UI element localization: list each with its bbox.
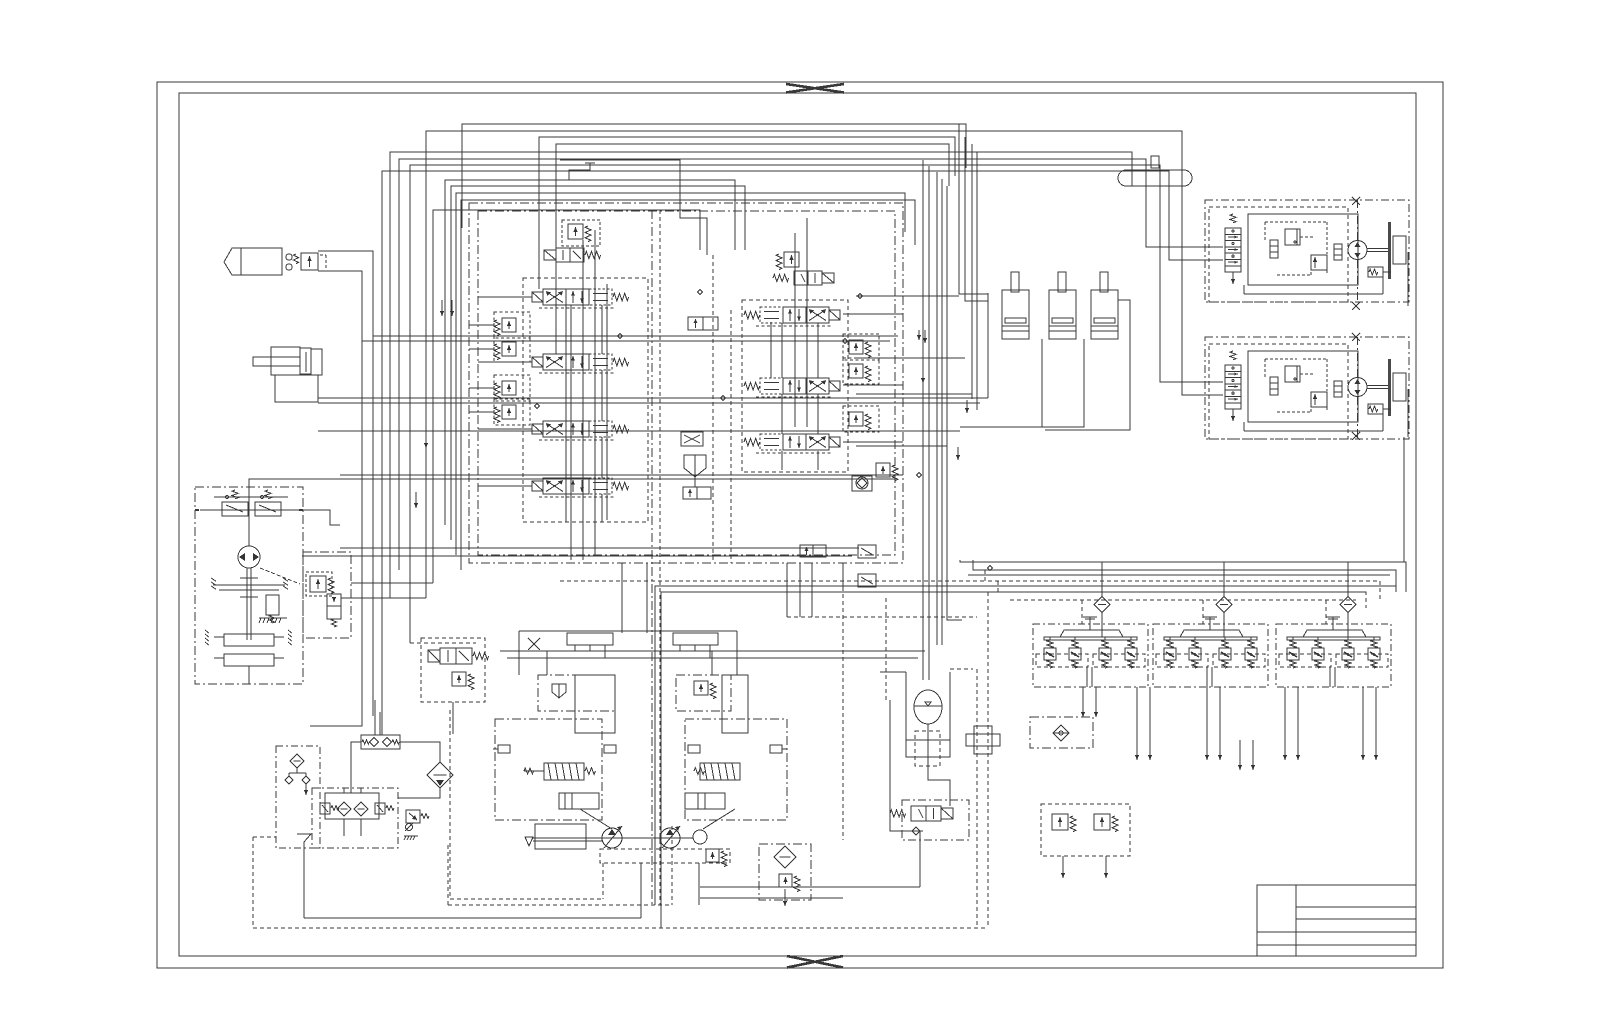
wire cluster feed 6 [1010, 599, 1356, 601]
wire bottom dashed enclosure [253, 927, 988, 929]
wire cross bus c [856, 393, 972, 395]
relief pilot boxes right [843, 334, 879, 360]
suspension cluster SC2 [1153, 624, 1268, 687]
X mark M1b [1352, 302, 1360, 310]
wire center drop H [971, 144, 973, 399]
acc dashed port box [915, 731, 940, 766]
pump P1 [602, 828, 622, 848]
pump pilot relief [694, 681, 708, 695]
gearbox gear top [213, 584, 285, 586]
relief valve RV8 [849, 412, 863, 426]
rotary joint pill [1118, 170, 1192, 186]
cross rect A [966, 734, 1000, 746]
wire top bus B [399, 159, 1146, 570]
relief valve RV7 [849, 364, 863, 378]
cooler relief A [320, 803, 330, 814]
travel motor unit M2 [1205, 337, 1409, 439]
wire mid dashed G [560, 580, 985, 582]
wire right edge M1 [1407, 252, 1409, 306]
pump side fittings [498, 745, 510, 753]
wire cross bus b [856, 357, 965, 359]
wire cluster feed 1 [960, 560, 1406, 592]
relief valve RV9 [784, 252, 799, 267]
wire center riser [433, 210, 700, 583]
valve at CYL1 [301, 253, 318, 270]
solenoid valve mid [428, 650, 440, 662]
pump relief [706, 849, 719, 862]
wire left drop A [310, 341, 362, 726]
valve stubs right col [781, 323, 783, 378]
breaker cylinder CYL1 [224, 248, 241, 275]
accumulator [914, 690, 942, 724]
wire left drop B [372, 336, 374, 716]
attach valve [327, 594, 341, 619]
gearbox output shaft [248, 666, 250, 684]
X mark M1 [1352, 197, 1360, 205]
aux valve box bottom [1041, 804, 1130, 856]
wire left col stubs [478, 296, 532, 298]
gearbox relief GR1 [222, 502, 248, 516]
cluster down arrows [1082, 687, 1084, 717]
relief valve RV2 [502, 342, 516, 356]
wire mid dashed H [787, 616, 977, 618]
travel motor unit M1 [1205, 200, 1409, 302]
wire cluster feed 3 [985, 570, 1380, 600]
suspension cluster SC3 [1276, 624, 1391, 687]
wire cyl bottom link [960, 426, 1042, 428]
wire gear link [341, 597, 426, 599]
cooler stems [343, 788, 345, 793]
wire center drop D [941, 179, 943, 645]
cooler filter B [354, 802, 368, 816]
relief valve RV4 [502, 405, 516, 419]
wire filter down [398, 788, 440, 798]
wire mid bus E [302, 555, 852, 557]
wire shuttle drop [694, 477, 696, 487]
wire right edge link [1403, 437, 1405, 562]
gearbox pilot line [200, 509, 300, 511]
relief valve RV6 [849, 340, 863, 354]
gearbox clutch upper [224, 634, 274, 646]
pilot box right column [742, 300, 848, 472]
wire top bus C [410, 165, 1160, 643]
pump enclosure right [685, 719, 787, 820]
return filter [774, 846, 796, 868]
directional valve V2 [532, 357, 543, 367]
title block [1257, 885, 1416, 956]
central valve block enclosure [469, 203, 903, 563]
wire sol drop [452, 702, 454, 734]
wire acc dashed encl [842, 587, 844, 840]
servo piston right [685, 793, 725, 809]
wire center drop E [947, 186, 962, 620]
servo valve left [544, 763, 584, 780]
wire cross bus d [856, 445, 947, 447]
directional valve V4 [532, 481, 543, 491]
return relief [779, 874, 792, 887]
gearbox clutch lower [224, 654, 274, 666]
wire cluster feed 4 [998, 581, 1366, 608]
wire bottom bus A [304, 917, 641, 919]
wire top bus E [426, 131, 1182, 598]
wire cluster feed 5 [968, 574, 1390, 576]
pump top wires [500, 650, 925, 652]
cluster filter F1 [1094, 597, 1110, 613]
shuttle block [681, 432, 703, 446]
wire dashed corner [253, 836, 276, 838]
wire check right [400, 742, 440, 762]
aux valve small C [800, 545, 813, 557]
wire cluster dashed drop A [1081, 600, 1083, 624]
relief valve RV5 [568, 224, 583, 239]
bottom centering mark [787, 956, 843, 968]
arrow marks mid [918, 330, 920, 340]
wire CYL1 bottom [318, 271, 362, 341]
cooler valve [406, 810, 420, 823]
right attach enclosure [303, 552, 351, 638]
central valve block enclosure inner [478, 211, 895, 555]
wire center drop C [936, 172, 938, 645]
pump bottom box [600, 849, 730, 863]
pump suction rect L [575, 675, 615, 733]
suspension cluster SC1 [1033, 624, 1148, 687]
pump link line [533, 837, 693, 839]
wire into M2 [1160, 202, 1223, 382]
wire accumulator drop [928, 724, 950, 806]
pump suction rect R [722, 675, 748, 733]
cylinder CYLB [1058, 272, 1066, 292]
valve stubs left col [565, 305, 567, 354]
wire cluster dashed drop C [1325, 600, 1327, 624]
aux arrows [1062, 856, 1064, 878]
wire gearbox top [249, 479, 385, 546]
gearbox pump motor [238, 546, 260, 568]
servo valve right [700, 763, 740, 780]
pilot valve PV3 [688, 317, 703, 330]
central dashed verticals [712, 255, 714, 563]
pump group top bar left [567, 633, 613, 645]
wire pump down B [698, 863, 700, 905]
wire into M1 [1146, 202, 1223, 247]
wire center bottom drops [786, 563, 788, 617]
fan symbol [525, 827, 533, 837]
wire center drop I [976, 152, 978, 410]
wire cluster feed solid A [655, 586, 1396, 905]
wire cluster riser C [1347, 562, 1349, 570]
accumulator enclosure [906, 672, 950, 757]
aux valve small B [858, 574, 876, 587]
relief pilot boxes [494, 312, 530, 338]
cross mark [528, 638, 540, 650]
return filter box [759, 844, 811, 900]
wire bottom dashed box 2 [448, 904, 672, 906]
X mark M2 [1352, 333, 1360, 341]
wire check top A [374, 700, 376, 735]
wire mid bus B [362, 340, 890, 342]
cooler filter A [337, 802, 351, 816]
cooler inner rect [325, 793, 379, 819]
wire cyl feed left [987, 293, 989, 398]
pilot valve PV4 [683, 487, 697, 499]
servo piston left [559, 793, 599, 809]
wire top loop 1 [462, 124, 966, 228]
pump enclosure left [495, 719, 602, 820]
wire filter stems [1101, 562, 1103, 596]
wire mid bus F [410, 642, 476, 644]
drawing frame outer border [157, 82, 1443, 968]
ground hatch [259, 617, 287, 619]
central enclosure inner right [651, 210, 653, 905]
mid relief [452, 672, 466, 686]
wire cross bus a [856, 295, 959, 297]
wire top bus D [382, 171, 1169, 735]
relief valve RV10 [876, 463, 890, 477]
directional valve V3 [532, 424, 543, 434]
wire top loop 3 [556, 144, 949, 240]
pump pilot box right [676, 675, 731, 711]
wire center drop B [928, 166, 930, 680]
valve gallery verticals left [570, 305, 572, 560]
cluster mid arrows [1239, 740, 1241, 770]
pilot valve PV1 [544, 250, 556, 260]
steering cylinder CYL2 [253, 357, 300, 366]
wire M2 return [1182, 202, 1223, 395]
wire cyl right [1045, 300, 1130, 430]
wire gear link2 [351, 582, 433, 584]
relief valve RV3 [502, 381, 516, 395]
wire check left [351, 742, 361, 793]
pump pilot box left [538, 675, 615, 711]
pilot valve PV2 [773, 274, 789, 281]
drawing frame inner border [179, 93, 1416, 956]
aux relief A [1052, 814, 1068, 830]
tank filter F1 [290, 754, 304, 768]
wire pump down A [640, 863, 642, 918]
wire CYL1 top [318, 251, 373, 336]
cooler relief B [375, 803, 385, 814]
wire top bus A [390, 152, 1132, 598]
wire center drop F [959, 124, 988, 294]
wire acc left [890, 700, 923, 831]
directional valve V7 [744, 438, 760, 446]
check pair box [361, 735, 400, 749]
wire right col stubs [843, 313, 903, 315]
wire cyl bottoms [1042, 339, 1084, 427]
wire mid bus A [373, 335, 898, 337]
wire bottom bus right [700, 886, 920, 888]
arrow tank B [305, 784, 307, 795]
gearbox enclosure [195, 487, 303, 684]
gearbox dashed link [260, 568, 300, 584]
directional valve V6 [744, 382, 760, 390]
tank filter small A [285, 776, 293, 784]
wire bottom dashed box 1 [450, 898, 603, 900]
wire M1 return [1169, 202, 1223, 260]
wire center drop A [922, 160, 924, 680]
solenoid box mid [421, 638, 485, 702]
cylinder CYLA [1011, 272, 1019, 292]
cross rect B [974, 726, 992, 754]
top centering mark [786, 84, 844, 93]
wire bus 475 [340, 474, 903, 476]
wire vertical riser group left [445, 180, 735, 525]
wire cluster riser A [1101, 562, 1103, 570]
wire CYL2 out [318, 397, 988, 399]
junction diamonds [697, 289, 702, 294]
directional valve V1 [532, 292, 543, 302]
wire cluster dashed drop B [1202, 600, 1204, 624]
wire center drop G [965, 137, 988, 301]
wire tank split [296, 768, 298, 773]
pump group top bar right [673, 633, 718, 645]
wire cluster feed 2 [973, 560, 1396, 592]
cylinder CYLC [1100, 272, 1108, 292]
gearbox brake cyl [266, 595, 279, 615]
attach relief [310, 576, 326, 592]
wire right edge M2 [1407, 389, 1409, 437]
wire top loop 2 [539, 137, 955, 268]
tank filter small B [302, 776, 310, 784]
tank enclosure [276, 746, 320, 848]
gearbox shaft [246, 568, 248, 640]
solenoid valve bottom [902, 800, 969, 840]
gearbox relief GR2 [255, 502, 281, 516]
X mark M2b [1352, 432, 1360, 440]
return arrow [784, 889, 786, 906]
pump P3 [693, 830, 707, 844]
pump P2 [660, 828, 680, 848]
aux valve small A [858, 545, 876, 558]
cluster filter F3 [1340, 597, 1356, 613]
main filter [427, 762, 453, 788]
pump funnel A [552, 684, 566, 698]
wire CYL2 body [275, 375, 318, 402]
check diamond box [1030, 717, 1093, 748]
valve gallery verticals right [794, 233, 796, 427]
funnel symbol [684, 455, 706, 477]
pill breather [1151, 156, 1159, 168]
aux relief B [1094, 814, 1110, 830]
wire pill risers [1131, 170, 1133, 186]
wire mid bus C [318, 430, 960, 432]
pilot box left column [523, 278, 648, 522]
wire bus 479 [332, 478, 895, 480]
cooler block [312, 788, 398, 848]
pump drive diag [580, 809, 612, 829]
bracket symbol top [569, 163, 590, 180]
cooler valve ground [404, 835, 418, 837]
relief valve RV1 [502, 318, 516, 332]
directional valve V5 [744, 311, 760, 319]
check valve CV1 [856, 477, 868, 489]
wire gearbox right [303, 510, 340, 525]
wire mid bus D [340, 547, 859, 549]
arrow marks left bundle [441, 300, 443, 316]
cluster filter F2 [1216, 597, 1232, 613]
radiator [535, 824, 586, 849]
wire cluster feed solid B [661, 592, 1366, 928]
tank symbol [297, 833, 311, 835]
